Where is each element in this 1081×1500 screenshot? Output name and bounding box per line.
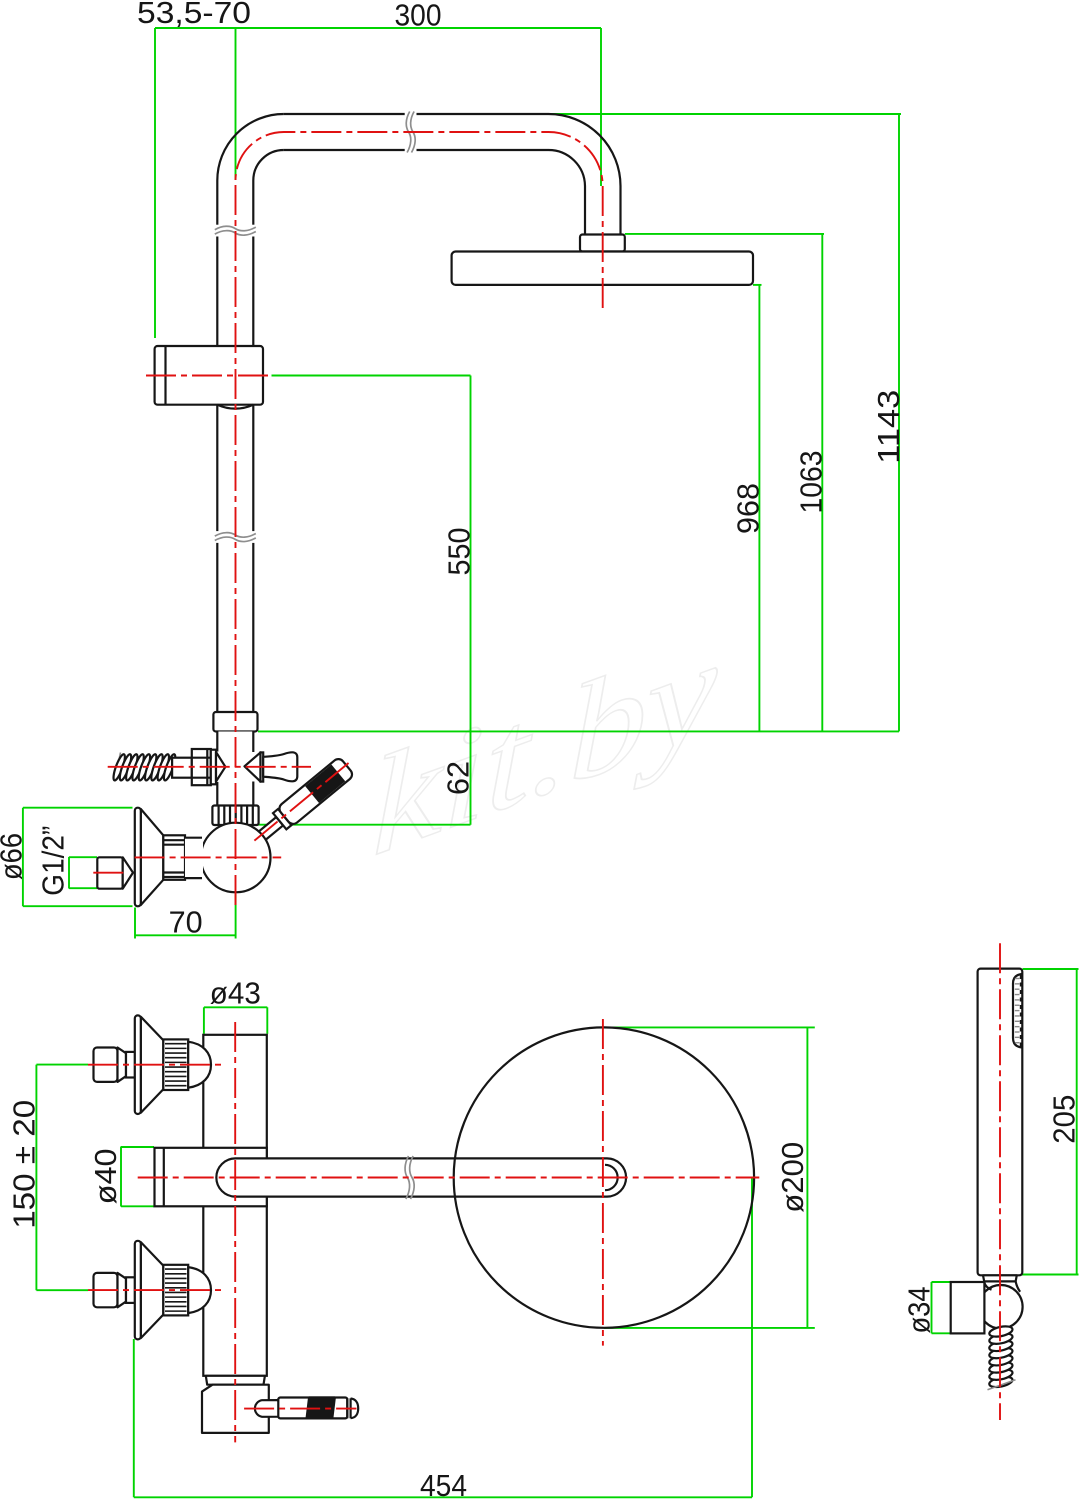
svg-text:ø66: ø66 [0,833,29,880]
svg-text:ø40: ø40 [88,1148,123,1204]
svg-text:53,5-70: 53,5-70 [137,0,251,30]
svg-text:300: 300 [395,0,442,33]
svg-text:G1/2”: G1/2” [36,826,71,896]
svg-text:70: 70 [169,905,203,940]
svg-text:ø34: ø34 [902,1287,937,1334]
svg-text:150 ± 20: 150 ± 20 [7,1100,42,1229]
svg-text:1143: 1143 [871,390,906,464]
svg-text:968: 968 [731,483,766,534]
svg-text:62: 62 [441,761,476,795]
svg-text:205: 205 [1047,1095,1081,1144]
svg-text:1063: 1063 [794,451,829,514]
svg-text:ø200: ø200 [775,1142,810,1213]
svg-text:550: 550 [442,528,477,576]
svg-text:454: 454 [420,1468,467,1500]
svg-text:ø43: ø43 [210,976,261,1011]
